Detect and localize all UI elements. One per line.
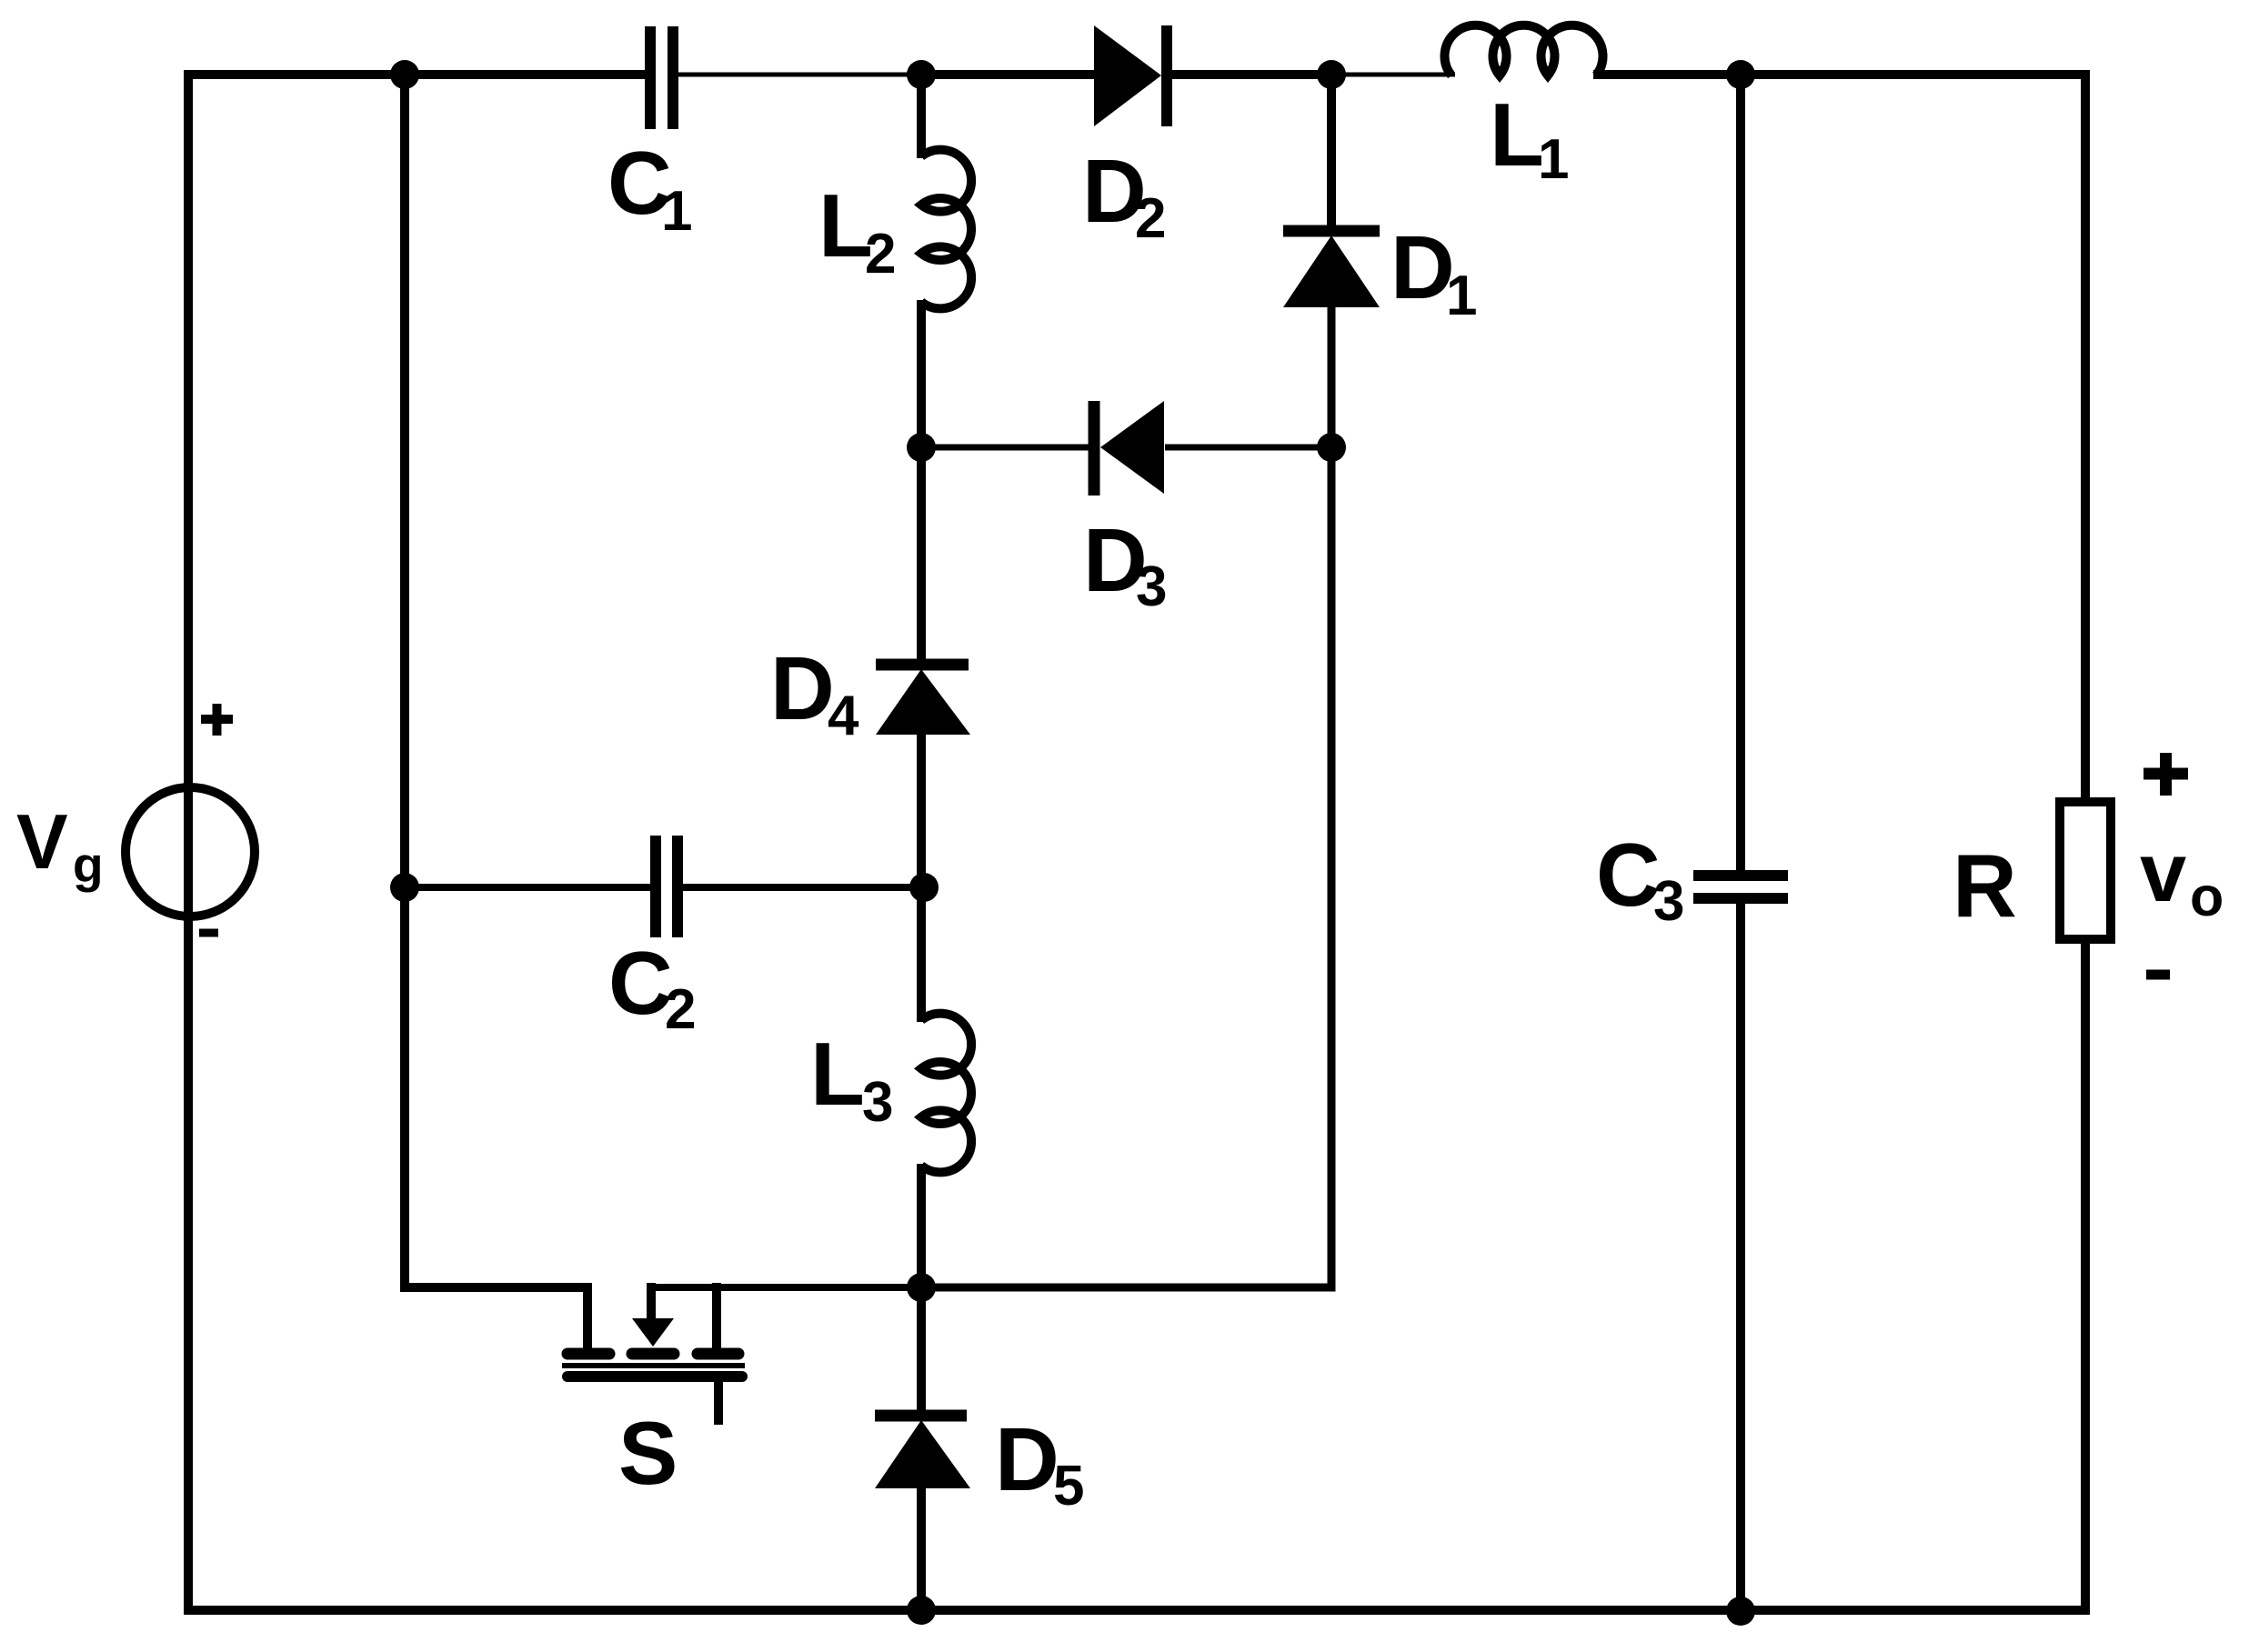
svg-text:D: D <box>770 638 835 738</box>
wire mid-left vertical and switch feed <box>405 70 592 1287</box>
wire top thin node to L1 <box>1331 73 1455 77</box>
node top-left junction <box>390 60 419 89</box>
svg-text:D: D <box>995 1409 1059 1509</box>
wire D3 right <box>1165 445 1331 451</box>
svg-text:V: V <box>16 799 68 886</box>
node top L2 junction <box>907 60 936 89</box>
wire top-left segment <box>184 70 647 79</box>
svg-text:1: 1 <box>1446 265 1477 327</box>
wire D4 to L3 <box>917 733 926 1022</box>
wire bottom <box>184 1606 2090 1615</box>
svg-text:C: C <box>1596 825 1661 925</box>
svg-text:o: o <box>2190 866 2224 927</box>
svg-text:2: 2 <box>1135 187 1166 250</box>
capacitor C2 <box>656 836 678 937</box>
wire left vertical <box>184 70 193 1615</box>
node switch junction <box>907 1273 936 1302</box>
wire L2 to D4 <box>917 300 926 665</box>
transistor S (MOSFET) <box>562 1283 921 1425</box>
diode D2 <box>1094 25 1167 126</box>
minus sign Vg <box>199 929 218 937</box>
label D1 <box>1391 217 1477 327</box>
svg-text:1: 1 <box>1538 128 1569 191</box>
wire C2 left <box>405 884 651 891</box>
wire C3 branch top <box>1736 70 1745 871</box>
svg-text:S: S <box>618 1403 678 1503</box>
inductor L1 <box>1445 25 1603 75</box>
node D3 left junction <box>907 433 936 462</box>
svg-text:4: 4 <box>828 685 859 747</box>
svg-text:3: 3 <box>1136 556 1167 618</box>
label vo <box>2140 826 2224 927</box>
label D3 <box>1083 510 1167 618</box>
svg-text:g: g <box>73 836 104 893</box>
wire D1 down to switch level <box>917 304 1331 1287</box>
diode D5 <box>875 1416 970 1488</box>
node C2 left junction <box>390 873 419 902</box>
label D2 <box>1082 141 1166 250</box>
svg-text:L: L <box>810 1024 865 1124</box>
svg-text:L: L <box>1490 85 1544 185</box>
wire L2 branch top <box>917 70 926 158</box>
svg-text:R: R <box>1953 836 2017 936</box>
wire L3 to S node <box>917 1164 926 1292</box>
label Vg <box>16 799 104 893</box>
node top D1 junction <box>1317 60 1346 89</box>
resistor R <box>2060 802 2111 939</box>
plus sign Vg <box>201 704 233 736</box>
wire D5 to bottom <box>917 1485 926 1615</box>
svg-text:v: v <box>2140 826 2186 919</box>
node C2 right junction <box>909 873 939 902</box>
wire C2 right <box>682 884 921 891</box>
label D5 <box>995 1409 1084 1517</box>
label L2 <box>818 175 896 285</box>
wire right vertical below R <box>2081 936 2090 1615</box>
wire D1 branch top <box>1327 70 1336 231</box>
svg-text:C: C <box>608 933 673 1033</box>
plus sign vo <box>2144 753 2188 796</box>
node bottom C3 junction <box>1726 1597 1755 1626</box>
svg-text:3: 3 <box>1653 870 1684 933</box>
wire top D2 to D1 node <box>1164 70 1336 79</box>
node top C3 junction <box>1726 60 1755 89</box>
node D3 right junction <box>1317 433 1346 462</box>
inductor L3 <box>921 1014 971 1173</box>
node bottom D5 junction <box>907 1596 936 1625</box>
capacitor C3 <box>1693 876 1788 898</box>
wire right vertical above R <box>2081 70 2090 806</box>
source Vg <box>126 787 255 916</box>
label C1 <box>607 133 692 243</box>
diode D4 <box>876 665 970 735</box>
label L3 <box>810 1024 893 1134</box>
wire D3 left <box>921 445 1089 451</box>
wire top L1 to right corner <box>1593 70 2090 79</box>
svg-text:5: 5 <box>1053 1455 1084 1517</box>
label D4 <box>770 638 859 747</box>
label C3 <box>1596 825 1684 933</box>
minus sign vo <box>2146 970 2170 980</box>
diode D1 <box>1283 231 1380 307</box>
svg-text:1: 1 <box>661 180 692 243</box>
diode D3 <box>1094 401 1164 496</box>
svg-text:2: 2 <box>865 223 896 285</box>
wire C3 branch bottom <box>1736 903 1745 1615</box>
inductor L2 <box>921 150 971 309</box>
capacitor C1 <box>650 26 673 129</box>
label C2 <box>608 933 696 1041</box>
svg-text:3: 3 <box>862 1071 893 1134</box>
svg-text:2: 2 <box>665 978 696 1041</box>
wire top node to D2 <box>917 70 1097 79</box>
label L1 <box>1490 85 1569 191</box>
wire top thin segment C1 to L2 node <box>677 73 926 77</box>
wire S node to D5 <box>917 1287 926 1412</box>
